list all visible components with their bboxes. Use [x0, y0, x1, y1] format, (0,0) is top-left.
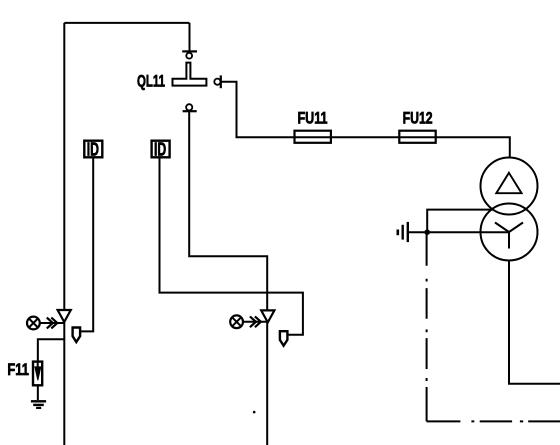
fuse FU12	[399, 131, 435, 143]
ground F11	[31, 401, 46, 408]
plug contact right	[280, 331, 288, 346]
wire QL11 to transformer bus	[221, 82, 510, 158]
arrester triangle left	[58, 310, 71, 322]
wire from ID1 to plug	[81, 158, 94, 332]
wire top busbar	[64, 22, 189, 24]
svg-text:ID: ID	[87, 138, 99, 159]
arrester triangle right	[261, 310, 274, 322]
transformer winding delta	[481, 158, 538, 215]
ID box 2	[152, 138, 170, 159]
chain line protection zone vertical	[426, 232, 428, 421]
plug contact left	[73, 328, 81, 343]
svg-text:FU11: FU11	[298, 109, 328, 128]
transformer winding wye	[481, 204, 538, 261]
arrester indicator left	[27, 317, 64, 330]
wire F11 to ground	[37, 387, 39, 401]
chain line protection zone horizontal	[427, 420, 560, 422]
breakdown fuse F11	[33, 362, 42, 386]
disconnector QL11	[173, 51, 221, 111]
wire left feeder	[63, 23, 65, 445]
svg-text:F11: F11	[7, 360, 29, 379]
wire secondary output	[509, 261, 560, 384]
svg-text:QL11: QL11	[137, 72, 165, 91]
arrester indicator right	[230, 315, 268, 328]
ID box 1	[84, 138, 102, 159]
wire from ID2 to plug	[160, 158, 303, 335]
svg-text:FU12: FU12	[403, 109, 433, 128]
wire to winding junction	[427, 210, 492, 233]
dot mark	[253, 411, 256, 414]
ground transformer neutral	[398, 222, 427, 242]
wire QL11 top drop	[189, 23, 191, 53]
wire branch to F11	[38, 339, 64, 361]
junction dot	[424, 229, 430, 235]
svg-text:ID: ID	[154, 138, 166, 159]
fuse FU11	[295, 131, 331, 143]
wire QL11 bottom to feeder 2	[189, 111, 267, 445]
wire neutral	[427, 231, 509, 233]
